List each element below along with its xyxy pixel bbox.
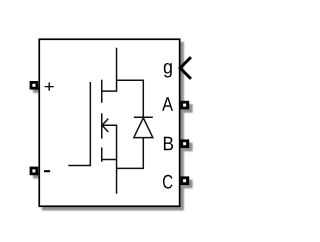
port + (left square) xyxy=(30,81,39,90)
label + xyxy=(45,82,54,90)
channel dash drain xyxy=(101,80,103,103)
diode triangle xyxy=(134,118,153,138)
mosfet Q1 xyxy=(68,48,116,194)
label g xyxy=(164,63,172,78)
label B xyxy=(164,137,173,150)
port C (right square) xyxy=(181,176,190,185)
converter block body xyxy=(39,39,179,206)
body arrowhead xyxy=(102,119,108,132)
channel dash body xyxy=(101,113,103,138)
diode D1 xyxy=(117,80,153,168)
channel dash source xyxy=(101,147,103,161)
port - (left square) xyxy=(30,167,39,176)
port A (right square) xyxy=(181,101,190,110)
port B (right square) xyxy=(181,139,190,148)
wire from diode anode to source downlead xyxy=(117,138,144,169)
drain stub and riser xyxy=(102,48,117,91)
block drop shadow xyxy=(33,42,193,211)
label C xyxy=(163,175,173,189)
source stub xyxy=(102,159,117,161)
label A xyxy=(162,97,173,110)
cathode bar xyxy=(134,116,153,118)
label - xyxy=(44,170,50,172)
signal port g chevron xyxy=(180,57,191,79)
wire from drain node to diode cathode xyxy=(117,80,144,116)
body lead and source downlead xyxy=(102,125,117,194)
gate lead and gate plate xyxy=(68,82,90,166)
